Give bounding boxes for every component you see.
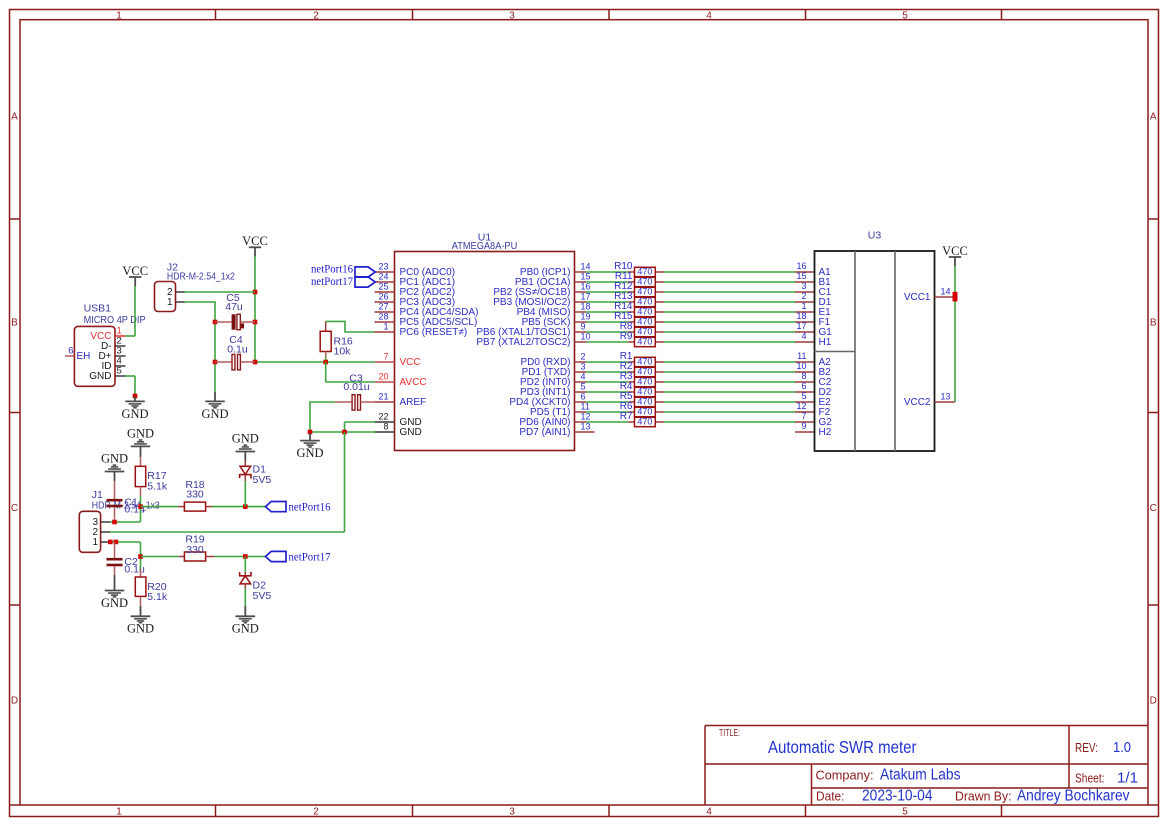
- svg-text:470: 470: [637, 317, 652, 327]
- svg-text:10k: 10k: [334, 346, 352, 358]
- svg-text:PC6 (RESET≠): PC6 (RESET≠): [400, 327, 468, 338]
- svg-text:14: 14: [581, 261, 591, 271]
- svg-text:Automatic SWR meter: Automatic SWR meter: [768, 737, 917, 757]
- svg-text:21: 21: [378, 391, 388, 401]
- svg-text:25: 25: [378, 281, 388, 291]
- svg-text:GND: GND: [121, 407, 148, 421]
- svg-text:VCC2: VCC2: [904, 397, 931, 408]
- svg-text:1: 1: [116, 10, 122, 21]
- svg-text:470: 470: [637, 417, 652, 427]
- svg-text:4: 4: [581, 371, 586, 381]
- svg-text:GND: GND: [101, 452, 128, 466]
- svg-text:7: 7: [801, 411, 806, 421]
- svg-text:470: 470: [637, 307, 652, 317]
- svg-text:2: 2: [801, 291, 806, 301]
- svg-text:5: 5: [117, 366, 122, 377]
- svg-text:2023-10-04: 2023-10-04: [862, 787, 933, 804]
- svg-text:5V5: 5V5: [253, 474, 272, 486]
- svg-text:470: 470: [637, 277, 652, 287]
- svg-text:470: 470: [637, 387, 652, 397]
- svg-text:470: 470: [637, 337, 652, 347]
- svg-text:9: 9: [581, 321, 586, 331]
- svg-text:C: C: [1150, 503, 1157, 514]
- svg-text:GND: GND: [101, 596, 128, 610]
- svg-text:20: 20: [378, 371, 388, 381]
- svg-text:3: 3: [581, 361, 586, 371]
- svg-text:10: 10: [581, 331, 591, 341]
- svg-text:A: A: [1150, 112, 1157, 123]
- svg-text:netPort16: netPort16: [311, 263, 353, 275]
- svg-text:1: 1: [167, 297, 173, 308]
- svg-text:15: 15: [796, 271, 806, 281]
- svg-text:6: 6: [801, 381, 806, 391]
- svg-text:Drawn By:: Drawn By:: [955, 789, 1012, 803]
- svg-text:470: 470: [637, 357, 652, 367]
- svg-text:4: 4: [706, 10, 712, 21]
- svg-text:6: 6: [581, 391, 586, 401]
- svg-text:Andrey Bochkarev: Andrey Bochkarev: [1017, 787, 1130, 804]
- svg-text:6: 6: [68, 345, 73, 356]
- svg-text:470: 470: [637, 397, 652, 407]
- svg-text:23: 23: [378, 261, 388, 271]
- svg-text:0.01u: 0.01u: [343, 381, 369, 393]
- svg-text:REV:: REV:: [1075, 741, 1098, 755]
- svg-text:HDR-M-2.54_1x2: HDR-M-2.54_1x2: [167, 271, 235, 283]
- svg-text:netPort16: netPort16: [289, 502, 331, 514]
- svg-text:GND: GND: [232, 432, 259, 446]
- svg-text:PD7 (AIN1): PD7 (AIN1): [519, 427, 570, 438]
- svg-text:1: 1: [116, 807, 122, 818]
- svg-text:470: 470: [637, 327, 652, 337]
- svg-text:330: 330: [186, 544, 204, 556]
- svg-text:H1: H1: [819, 337, 832, 348]
- svg-text:17: 17: [796, 321, 806, 331]
- svg-text:7: 7: [383, 351, 388, 361]
- svg-text:12: 12: [796, 401, 806, 411]
- svg-text:5.1k: 5.1k: [147, 591, 168, 603]
- svg-text:12: 12: [581, 411, 591, 421]
- svg-text:MICRO 4P DIP: MICRO 4P DIP: [84, 314, 146, 326]
- svg-text:11: 11: [797, 351, 806, 361]
- svg-text:1/1: 1/1: [1117, 770, 1138, 787]
- svg-text:3: 3: [509, 10, 515, 21]
- svg-text:11: 11: [581, 401, 590, 411]
- svg-text:470: 470: [637, 297, 652, 307]
- svg-text:8: 8: [801, 371, 806, 381]
- svg-text:B: B: [11, 318, 18, 329]
- svg-text:3: 3: [801, 281, 806, 291]
- svg-text:4: 4: [801, 331, 806, 341]
- svg-text:5: 5: [902, 807, 908, 818]
- svg-text:VCC: VCC: [122, 264, 148, 278]
- svg-text:470: 470: [637, 287, 652, 297]
- svg-text:B: B: [1150, 318, 1157, 329]
- svg-text:PB7 (XTAL2/TOSC2): PB7 (XTAL2/TOSC2): [476, 337, 570, 348]
- svg-text:13: 13: [581, 421, 591, 431]
- svg-text:470: 470: [637, 407, 652, 417]
- svg-text:1: 1: [383, 321, 388, 331]
- svg-text:9: 9: [801, 421, 806, 431]
- svg-text:USB1: USB1: [84, 303, 112, 315]
- svg-text:330: 330: [186, 489, 204, 501]
- svg-text:VCC: VCC: [400, 357, 421, 368]
- svg-text:GND: GND: [89, 371, 111, 382]
- svg-text:5.1k: 5.1k: [147, 480, 168, 492]
- svg-text:VCC1: VCC1: [904, 292, 931, 303]
- svg-text:26: 26: [378, 291, 388, 301]
- svg-text:22: 22: [378, 411, 388, 421]
- svg-text:GND: GND: [201, 407, 228, 421]
- svg-text:16: 16: [796, 261, 806, 271]
- svg-text:470: 470: [637, 267, 652, 277]
- svg-text:3: 3: [509, 807, 515, 818]
- svg-text:GND: GND: [296, 446, 323, 460]
- svg-text:ATMEGA8A-PU: ATMEGA8A-PU: [452, 240, 518, 252]
- svg-text:18: 18: [796, 311, 806, 321]
- svg-text:2: 2: [313, 10, 319, 21]
- svg-text:U3: U3: [868, 230, 882, 242]
- svg-text:1: 1: [92, 537, 98, 548]
- svg-text:2: 2: [581, 351, 586, 361]
- svg-text:4: 4: [706, 807, 712, 818]
- svg-text:VCC: VCC: [942, 244, 968, 258]
- svg-text:2: 2: [313, 807, 319, 818]
- svg-text:R7: R7: [620, 411, 633, 422]
- svg-text:Company:: Company:: [816, 769, 874, 783]
- svg-text:13: 13: [941, 391, 951, 401]
- svg-text:VCC: VCC: [242, 234, 268, 248]
- svg-text:D: D: [11, 696, 18, 707]
- svg-text:Sheet:: Sheet:: [1075, 772, 1105, 786]
- svg-text:Date:: Date:: [816, 789, 845, 803]
- svg-text:1: 1: [801, 301, 806, 311]
- svg-text:GND: GND: [400, 427, 422, 438]
- svg-text:28: 28: [378, 311, 388, 321]
- svg-text:netPort17: netPort17: [311, 276, 353, 288]
- svg-text:EH: EH: [77, 351, 91, 362]
- svg-text:GND: GND: [127, 622, 154, 636]
- svg-text:8: 8: [383, 421, 388, 431]
- svg-text:18: 18: [581, 301, 591, 311]
- svg-text:15: 15: [581, 271, 591, 281]
- svg-text:47u: 47u: [225, 301, 243, 313]
- svg-text:AREF: AREF: [400, 397, 427, 408]
- svg-text:GND: GND: [232, 622, 259, 636]
- svg-text:14: 14: [941, 286, 951, 296]
- svg-text:27: 27: [378, 301, 388, 311]
- svg-text:470: 470: [637, 377, 652, 387]
- svg-text:GND: GND: [127, 426, 154, 440]
- svg-text:R9: R9: [620, 331, 633, 342]
- svg-text:D: D: [1150, 696, 1157, 707]
- svg-text:10: 10: [796, 361, 806, 371]
- svg-text:17: 17: [581, 291, 591, 301]
- svg-text:TITLE:: TITLE:: [719, 728, 740, 739]
- svg-text:netPort17: netPort17: [289, 552, 331, 564]
- svg-text:C: C: [11, 503, 18, 514]
- svg-text:470: 470: [637, 367, 652, 377]
- svg-text:16: 16: [581, 281, 591, 291]
- svg-text:5: 5: [581, 381, 586, 391]
- svg-text:1.0: 1.0: [1113, 739, 1131, 756]
- svg-text:0.1u: 0.1u: [124, 563, 145, 575]
- svg-text:5V5: 5V5: [253, 590, 272, 602]
- svg-text:AVCC: AVCC: [400, 377, 427, 388]
- svg-text:H2: H2: [819, 427, 832, 438]
- svg-text:5: 5: [801, 391, 806, 401]
- svg-text:Atakum Labs: Atakum Labs: [880, 767, 961, 784]
- svg-text:19: 19: [581, 311, 591, 321]
- svg-text:A: A: [11, 112, 18, 123]
- svg-text:24: 24: [378, 271, 388, 281]
- svg-text:5: 5: [902, 10, 908, 21]
